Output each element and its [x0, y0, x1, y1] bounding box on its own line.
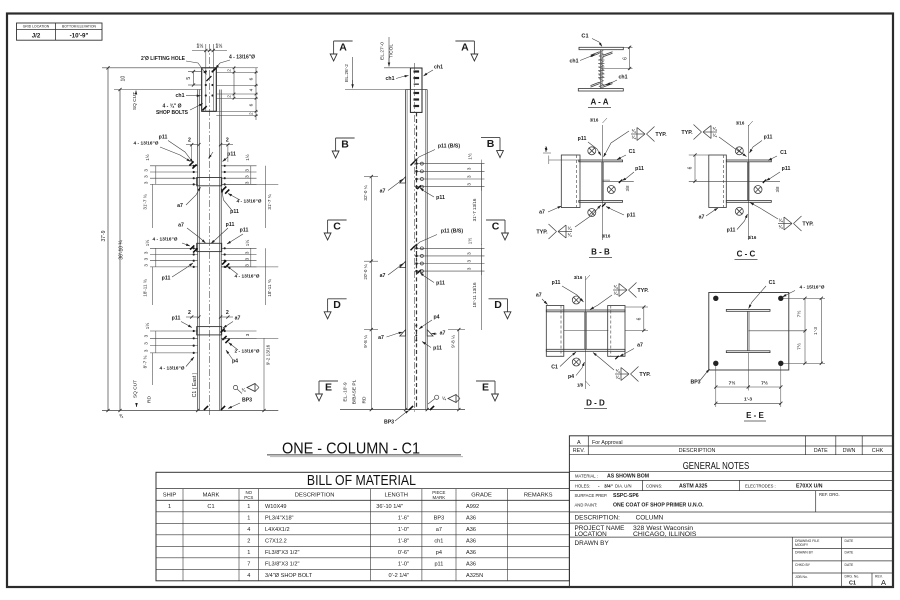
- svg-text:DATE: DATE: [845, 539, 855, 543]
- section E-E base plate: [709, 293, 789, 371]
- section C-C title: [735, 250, 758, 260]
- svg-text:B/BASE PL: B/BASE PL: [352, 379, 358, 404]
- left view stiffener group 2 lines: [150, 243, 257, 268]
- svg-text:p4: p4: [568, 374, 574, 380]
- svg-text:0'-2 1/4": 0'-2 1/4": [389, 573, 409, 579]
- left view dim 36-10 1/4: [119, 240, 125, 260]
- section E-E anchor bolts: [713, 296, 783, 366]
- svg-text:ASTM A325: ASTM A325: [679, 484, 707, 490]
- left view label 4-13/16 top right: [216, 55, 256, 69]
- svg-text:31'-7 ¾: 31'-7 ¾: [143, 194, 148, 209]
- svg-text:DIA. U/N: DIA. U/N: [615, 484, 632, 489]
- svg-text:3: 3: [467, 259, 472, 262]
- left view label SQ CUT bottom: [133, 380, 139, 407]
- svg-text:p4: p4: [433, 314, 439, 320]
- svg-text:p11: p11: [436, 281, 445, 287]
- section A-A title: [588, 98, 611, 108]
- svg-text:3/16: 3/16: [574, 275, 583, 280]
- title block project rows: [575, 525, 697, 538]
- svg-text:p11: p11: [552, 280, 561, 286]
- section D-D dim 6: [625, 305, 648, 332]
- svg-text:PCS: PCS: [244, 495, 253, 500]
- svg-text:10: 10: [121, 76, 127, 82]
- svg-text:4 - 13/16"Ø: 4 - 13/16"Ø: [160, 366, 185, 372]
- svg-text:a7: a7: [177, 203, 183, 209]
- svg-text:4 - 13/16"Ø: 4 - 13/16"Ø: [153, 237, 178, 243]
- svg-text:3: 3: [244, 169, 249, 172]
- section D-D weld TYP bottom right: [593, 353, 651, 382]
- svg-text:ch1: ch1: [434, 65, 443, 71]
- svg-text:3: 3: [244, 181, 249, 184]
- svg-text:3: 3: [144, 264, 149, 267]
- svg-text:SHOP BOLTS: SHOP BOLTS: [156, 110, 189, 116]
- svg-text:ELECTRODES :: ELECTRODES :: [745, 484, 776, 489]
- section B-B weld TYP bottom left: [536, 205, 600, 239]
- svg-text:JOB No.: JOB No.: [795, 575, 808, 579]
- svg-text:0'-6": 0'-6": [398, 550, 409, 556]
- section C-C weld TYP bottom right: [750, 203, 814, 232]
- svg-text:SHIP: SHIP: [163, 493, 177, 499]
- section C-C dim 3/16 bottom: [748, 235, 757, 240]
- svg-text:E - E: E - E: [746, 411, 764, 420]
- svg-text:J/2: J/2: [32, 32, 41, 39]
- section D-D weld dims: [574, 275, 590, 388]
- title block material row: [575, 474, 649, 480]
- svg-text:ch1: ch1: [570, 59, 579, 65]
- svg-text:1½: 1½: [467, 238, 473, 245]
- section B-B dim 3/16 bottom: [602, 234, 611, 239]
- left view group1 labels: [134, 134, 236, 168]
- bill of material headers: [163, 490, 553, 500]
- section B-B label C1: [617, 149, 635, 160]
- left view group1 top dims 2 2: [186, 138, 233, 163]
- svg-text:2: 2: [188, 138, 191, 144]
- svg-text:5: 5: [186, 77, 192, 80]
- svg-text:BP3: BP3: [384, 419, 394, 425]
- svg-text:FL3/8"X3 1/2": FL3/8"X3 1/2": [265, 562, 299, 568]
- svg-text:1'-6": 1'-6": [398, 516, 409, 522]
- svg-text:3/4": 3/4": [604, 484, 613, 490]
- left view ch1 lifting channel plate: [202, 44, 217, 111]
- svg-text:CONNS:: CONNS:: [646, 484, 662, 489]
- svg-text:p11: p11: [635, 166, 644, 172]
- middle view a7 clip at B: [380, 177, 406, 195]
- svg-text:¼: ¼: [442, 396, 446, 401]
- left view dim 18-11 3/4 left: [143, 267, 153, 305]
- svg-text:6: 6: [622, 57, 628, 60]
- svg-text:6: 6: [249, 103, 255, 106]
- svg-text:RD: RD: [362, 396, 368, 403]
- section marker B right: [481, 138, 503, 158]
- section C-C label a7: [699, 208, 718, 221]
- svg-text:3: 3: [144, 175, 149, 178]
- left view label ch1: [176, 93, 201, 99]
- title block revision row: [573, 436, 884, 455]
- svg-text:B: B: [341, 138, 349, 150]
- svg-text:BILL OF MATERIAL: BILL OF MATERIAL: [307, 472, 416, 489]
- svg-text:CHKD BY: CHKD BY: [795, 563, 811, 567]
- svg-text:p11: p11: [226, 222, 235, 228]
- svg-text:a7: a7: [178, 223, 184, 229]
- svg-text:3/4"Ø SHOP BOLT: 3/4"Ø SHOP BOLT: [265, 573, 313, 579]
- svg-text:31'-7 13/16: 31'-7 13/16: [472, 198, 477, 221]
- left view right chain dims near top: [216, 67, 258, 121]
- svg-text:SURFACE PREP.: SURFACE PREP.: [575, 493, 608, 498]
- svg-text:DESCRIPTION: DESCRIPTION: [295, 493, 335, 499]
- middle view label p11 below C: [417, 270, 445, 287]
- left view dim 9-2 13/16: [221, 338, 278, 410]
- section B-B weld TYP top right: [631, 127, 667, 142]
- svg-text:3/16: 3/16: [736, 121, 745, 126]
- svg-text:3/16: 3/16: [602, 234, 611, 239]
- svg-text:2: 2: [188, 310, 191, 316]
- svg-text:TYP.: TYP.: [802, 222, 814, 228]
- svg-text:DATE: DATE: [845, 551, 855, 555]
- svg-text:¼: ¼: [242, 388, 246, 393]
- svg-text:HOLES:: HOLES:: [575, 484, 590, 489]
- svg-text:3: 3: [467, 267, 472, 270]
- svg-text:LENGTH: LENGTH: [384, 493, 408, 499]
- bill of material table frame: [156, 472, 569, 581]
- section A-A web: [601, 50, 602, 89]
- svg-text:p4: p4: [436, 550, 442, 556]
- svg-text:2: 2: [247, 539, 250, 545]
- svg-text:BP3: BP3: [690, 380, 700, 386]
- svg-text:1: 1: [247, 516, 250, 522]
- svg-text:D: D: [494, 299, 502, 311]
- svg-text:a7: a7: [436, 527, 442, 533]
- svg-text:a7: a7: [637, 343, 643, 349]
- svg-text:4 - 13/16"Ø: 4 - 13/16"Ø: [134, 141, 159, 147]
- left view stiffener group 3 lines: [150, 327, 257, 354]
- title block holes row: [575, 480, 823, 490]
- svg-text:D: D: [333, 299, 341, 311]
- svg-text:ch1: ch1: [386, 76, 395, 82]
- svg-text:3: 3: [144, 257, 149, 260]
- svg-text:3/16: 3/16: [748, 235, 757, 240]
- section marker A left: [330, 41, 352, 61]
- svg-text:9'-8 ¼: 9'-8 ¼: [450, 335, 455, 348]
- middle view ch1 bolts: [414, 70, 420, 107]
- svg-text:DATE: DATE: [845, 563, 855, 567]
- svg-text:3: 3: [467, 183, 472, 186]
- svg-text:C1 ( East ): C1 ( East ): [192, 372, 198, 397]
- svg-text:BOTTOM ELEVATION: BOTTOM ELEVATION: [62, 25, 96, 29]
- svg-text:18'-11 ¾: 18'-11 ¾: [143, 279, 148, 297]
- svg-text:REV.: REV.: [573, 448, 585, 454]
- svg-text:2: 2: [227, 69, 233, 72]
- left view column centreline: [209, 44, 211, 415]
- svg-text:1: 1: [247, 504, 250, 510]
- section C-C geometry: [689, 125, 780, 240]
- svg-text:4 - 15/16"Ø: 4 - 15/16"Ø: [800, 285, 825, 291]
- svg-text:For Approval: For Approval: [592, 440, 623, 446]
- svg-text:1½: 1½: [244, 154, 250, 161]
- section marker E left: [316, 381, 338, 401]
- svg-text:DRAWN BY: DRAWN BY: [575, 540, 610, 547]
- middle view elevation EL 26-2: [344, 57, 406, 90]
- svg-text:D - D: D - D: [586, 399, 605, 408]
- svg-text:a7: a7: [378, 335, 384, 341]
- section E-E column section: [726, 310, 770, 353]
- svg-text:3/8: 3/8: [775, 186, 780, 192]
- svg-text:a7: a7: [699, 215, 705, 221]
- svg-text:SQ CUT: SQ CUT: [132, 92, 138, 110]
- svg-text:p11: p11: [159, 134, 168, 140]
- svg-text:C1: C1: [207, 504, 214, 510]
- svg-text:a7: a7: [536, 293, 542, 299]
- svg-text:a7: a7: [539, 210, 545, 216]
- section B-B label a7: [539, 206, 561, 216]
- svg-text:3: 3: [244, 257, 249, 260]
- svg-text:3: 3: [144, 334, 149, 337]
- svg-text:3: 3: [467, 167, 472, 170]
- left view elevation line EL 27-0: [102, 68, 202, 411]
- svg-text:4: 4: [249, 88, 255, 91]
- svg-text:GRID LOCATION: GRID LOCATION: [23, 25, 50, 29]
- svg-text:p11: p11: [433, 346, 442, 352]
- left view group2 side dims: [144, 240, 251, 267]
- svg-text:2 - 13/16"Ø: 2 - 13/16"Ø: [235, 349, 260, 355]
- svg-text:A: A: [881, 578, 886, 587]
- svg-text:1½: 1½: [144, 240, 150, 247]
- svg-text:1'-8": 1'-8": [398, 539, 409, 545]
- left view group3 side dims: [144, 323, 250, 352]
- middle view column flanges: [406, 90, 428, 410]
- svg-text:1½: 1½: [467, 153, 473, 160]
- section marker D right: [489, 299, 511, 319]
- svg-text:TYP.: TYP.: [637, 288, 649, 294]
- svg-text:4 - 13/16"Ø: 4 - 13/16"Ø: [229, 55, 255, 61]
- svg-text:1: 1: [168, 504, 171, 510]
- svg-text:DRG. No.: DRG. No.: [845, 575, 860, 579]
- svg-text:B: B: [487, 138, 495, 150]
- svg-text:A36: A36: [466, 516, 476, 522]
- svg-text:C1: C1: [849, 580, 856, 586]
- svg-text:p11: p11: [764, 135, 773, 141]
- svg-text:3: 3: [467, 252, 472, 255]
- section A-A labels ch1: [570, 55, 628, 85]
- section marker B left: [332, 138, 354, 158]
- svg-text:ONE COAT OF SHOP PRIMER U.N.O.: ONE COAT OF SHOP PRIMER U.N.O.: [613, 503, 704, 509]
- svg-text:6: 6: [637, 317, 643, 320]
- left view label 2-dia lifting hole: [141, 56, 206, 75]
- svg-text:3/8: 3/8: [625, 185, 630, 191]
- middle view column centreline: [414, 63, 416, 414]
- svg-text:A36: A36: [466, 562, 476, 568]
- section B-B geometry: [549, 125, 634, 240]
- left view group2 labels: [153, 222, 260, 282]
- section B-B label p11 bottom: [602, 203, 635, 218]
- middle view label p11 below B: [417, 186, 445, 202]
- svg-text:7½: 7½: [761, 379, 768, 386]
- svg-text:AS SHOWN BOM: AS SHOWN BOM: [607, 474, 649, 480]
- svg-text:A325N: A325N: [466, 573, 483, 579]
- svg-text:EL.27'-0: EL.27'-0: [380, 42, 386, 60]
- svg-text:MARK: MARK: [433, 495, 446, 500]
- svg-text:6: 6: [249, 77, 255, 80]
- section E-E dims bottom: [714, 353, 782, 407]
- svg-text:a7: a7: [380, 189, 386, 195]
- svg-text:T/COL: T/COL: [389, 44, 395, 58]
- svg-text:A - A: A - A: [590, 98, 608, 107]
- svg-text:p11: p11: [727, 228, 736, 234]
- svg-text:p11: p11: [240, 228, 249, 234]
- middle view elevation EL 27-0 T/COL: [380, 37, 411, 68]
- svg-text:BP3: BP3: [242, 398, 252, 404]
- svg-text:7½: 7½: [796, 311, 803, 318]
- left view dim 10: [121, 76, 127, 82]
- svg-text:9'-2 13/16: 9'-2 13/16: [266, 344, 271, 365]
- svg-text:DESCRIPTION:: DESCRIPTION:: [575, 515, 621, 522]
- title block description row: [575, 515, 664, 522]
- svg-text:L4X4X1/2: L4X4X1/2: [265, 527, 290, 533]
- left view group1 lower labels: [177, 187, 262, 216]
- svg-text:1½: 1½: [144, 154, 150, 161]
- title block surface prep rows: [575, 491, 840, 512]
- left view group1 side dims: [144, 154, 251, 184]
- svg-text:2: 2: [249, 112, 255, 115]
- svg-text:3: 3: [144, 169, 149, 172]
- svg-text:3: 3: [467, 175, 472, 178]
- section A-A bottom flange: [578, 89, 623, 91]
- section D-D weld TYP top right: [590, 283, 649, 310]
- svg-text:DRAWN BY: DRAWN BY: [795, 551, 814, 555]
- svg-text:ch1: ch1: [619, 75, 628, 81]
- svg-text:1'-0": 1'-0": [398, 527, 409, 533]
- section C-C dim 6: [688, 153, 709, 183]
- svg-text:3: 3: [245, 333, 250, 336]
- svg-text:4: 4: [247, 527, 250, 533]
- section B-B dim 1 top left: [543, 146, 551, 153]
- left view weld mark at base: [233, 384, 259, 394]
- svg-text:37'-9: 37'-9: [101, 230, 107, 241]
- svg-text:31'-7 ¾: 31'-7 ¾: [267, 194, 272, 209]
- svg-text:RD: RD: [147, 396, 153, 403]
- svg-text:C7X12.2: C7X12.2: [265, 539, 287, 545]
- svg-text:1½: 1½: [244, 240, 250, 247]
- svg-text:1'-3: 1'-3: [813, 327, 819, 335]
- svg-text:C1: C1: [629, 149, 636, 155]
- svg-text:8'-7 ¾: 8'-7 ¾: [143, 356, 148, 369]
- bill of material title: [307, 472, 416, 489]
- section D-D bolts: [572, 296, 580, 366]
- svg-text:7½: 7½: [729, 379, 736, 386]
- section D-D label a7 right: [615, 343, 643, 360]
- left view dim 8-7 3/4: [143, 353, 153, 385]
- svg-text:C1: C1: [551, 365, 558, 371]
- svg-text:7: 7: [247, 562, 250, 568]
- middle view p4 plate marks: [415, 314, 439, 341]
- section B-B title: [589, 248, 612, 258]
- svg-text:GRADE: GRADE: [471, 493, 492, 499]
- svg-text:PL3/4"X18": PL3/4"X18": [265, 516, 294, 522]
- svg-text:REF. DRG.: REF. DRG.: [819, 492, 840, 497]
- middle view dims right of C group: [467, 238, 482, 330]
- section E-E label C1: [749, 280, 776, 309]
- svg-text:DWN: DWN: [843, 448, 856, 454]
- svg-text:1/8: 1/8: [577, 382, 584, 387]
- svg-text:18'-11 ¾: 18'-11 ¾: [267, 279, 272, 297]
- svg-text:2: 2: [226, 138, 229, 144]
- svg-text:3: 3: [144, 251, 149, 254]
- middle view stiffener group at B: [415, 160, 484, 191]
- svg-text:MARK: MARK: [203, 493, 220, 499]
- svg-text:3: 3: [144, 349, 149, 352]
- title block drawn by: [575, 540, 610, 547]
- svg-text:a7: a7: [440, 331, 446, 337]
- left view label C1 East: [192, 372, 198, 397]
- svg-text:p11: p11: [227, 152, 236, 158]
- svg-text:1'-0": 1'-0": [398, 562, 409, 568]
- section C-C dim 3/8: [775, 186, 780, 192]
- svg-text:4 - 13/16"Ø: 4 - 13/16"Ø: [235, 274, 260, 280]
- svg-text:32'-0 ¼: 32'-0 ¼: [363, 185, 368, 200]
- svg-text:C1: C1: [780, 150, 787, 156]
- svg-text:p11: p11: [436, 195, 445, 201]
- section A-A dim 6: [602, 46, 633, 70]
- bill of material column lines: [183, 489, 507, 581]
- svg-text:p11 (B/S): p11 (B/S): [438, 144, 460, 150]
- svg-text:3: 3: [244, 251, 249, 254]
- svg-text:CHK: CHK: [872, 448, 884, 454]
- svg-text:C: C: [333, 220, 341, 232]
- svg-text:2'Ø LIFTING HOLE: 2'Ø LIFTING HOLE: [141, 56, 186, 62]
- section B-B dim 3/8: [625, 185, 630, 191]
- section D-D title: [584, 399, 607, 409]
- svg-text:CHICAGO, ILLINOIS: CHICAGO, ILLINOIS: [633, 531, 697, 538]
- svg-text:1½: 1½: [197, 43, 204, 50]
- svg-text:AND PAINT:: AND PAINT:: [575, 503, 598, 508]
- svg-text:p11: p11: [162, 276, 171, 282]
- svg-text:3: 3: [144, 342, 149, 345]
- left view label RD: [147, 396, 153, 403]
- svg-text:3: 3: [244, 175, 249, 178]
- section marker E right: [476, 381, 498, 401]
- left view ch1 bolts: [203, 68, 217, 111]
- svg-text:6: 6: [688, 166, 694, 169]
- svg-text:3: 3: [244, 264, 249, 267]
- middle view label p11 at D: [422, 342, 442, 352]
- svg-text:C1: C1: [581, 34, 588, 40]
- svg-text:p11: p11: [172, 316, 181, 322]
- section A-A label C1: [581, 34, 602, 47]
- svg-text:ch1: ch1: [176, 93, 185, 99]
- section D-D geometry: [546, 276, 625, 389]
- svg-text:a7: a7: [235, 316, 241, 322]
- svg-text:TYP.: TYP.: [536, 230, 548, 236]
- svg-text:EL.-10'-9: EL.-10'-9: [343, 382, 349, 402]
- section C-C label C1: [768, 150, 787, 161]
- svg-text:9'-8 ¼: 9'-8 ¼: [363, 335, 368, 348]
- svg-text:p11: p11: [578, 136, 587, 142]
- section marker A right: [455, 41, 477, 61]
- left view group3 labels: [160, 316, 260, 372]
- left view dim 31-7 3/4 right: [221, 166, 278, 228]
- left view dim 18-11 3/4 right: [221, 248, 278, 305]
- svg-text:p11: p11: [627, 213, 636, 219]
- title block right sub-block: [792, 537, 893, 587]
- left view stiffener group 1 lines: [150, 165, 257, 186]
- section B-B weld arrows: [590, 118, 629, 158]
- svg-text:p11: p11: [782, 166, 791, 172]
- svg-text:A36: A36: [466, 539, 476, 545]
- section B-B label p11 top: [578, 136, 601, 156]
- middle view label ch1 left: [386, 76, 409, 83]
- svg-text:C - C: C - C: [737, 250, 756, 259]
- left view overall dim 37-9: [101, 230, 107, 241]
- svg-text:E: E: [482, 381, 489, 393]
